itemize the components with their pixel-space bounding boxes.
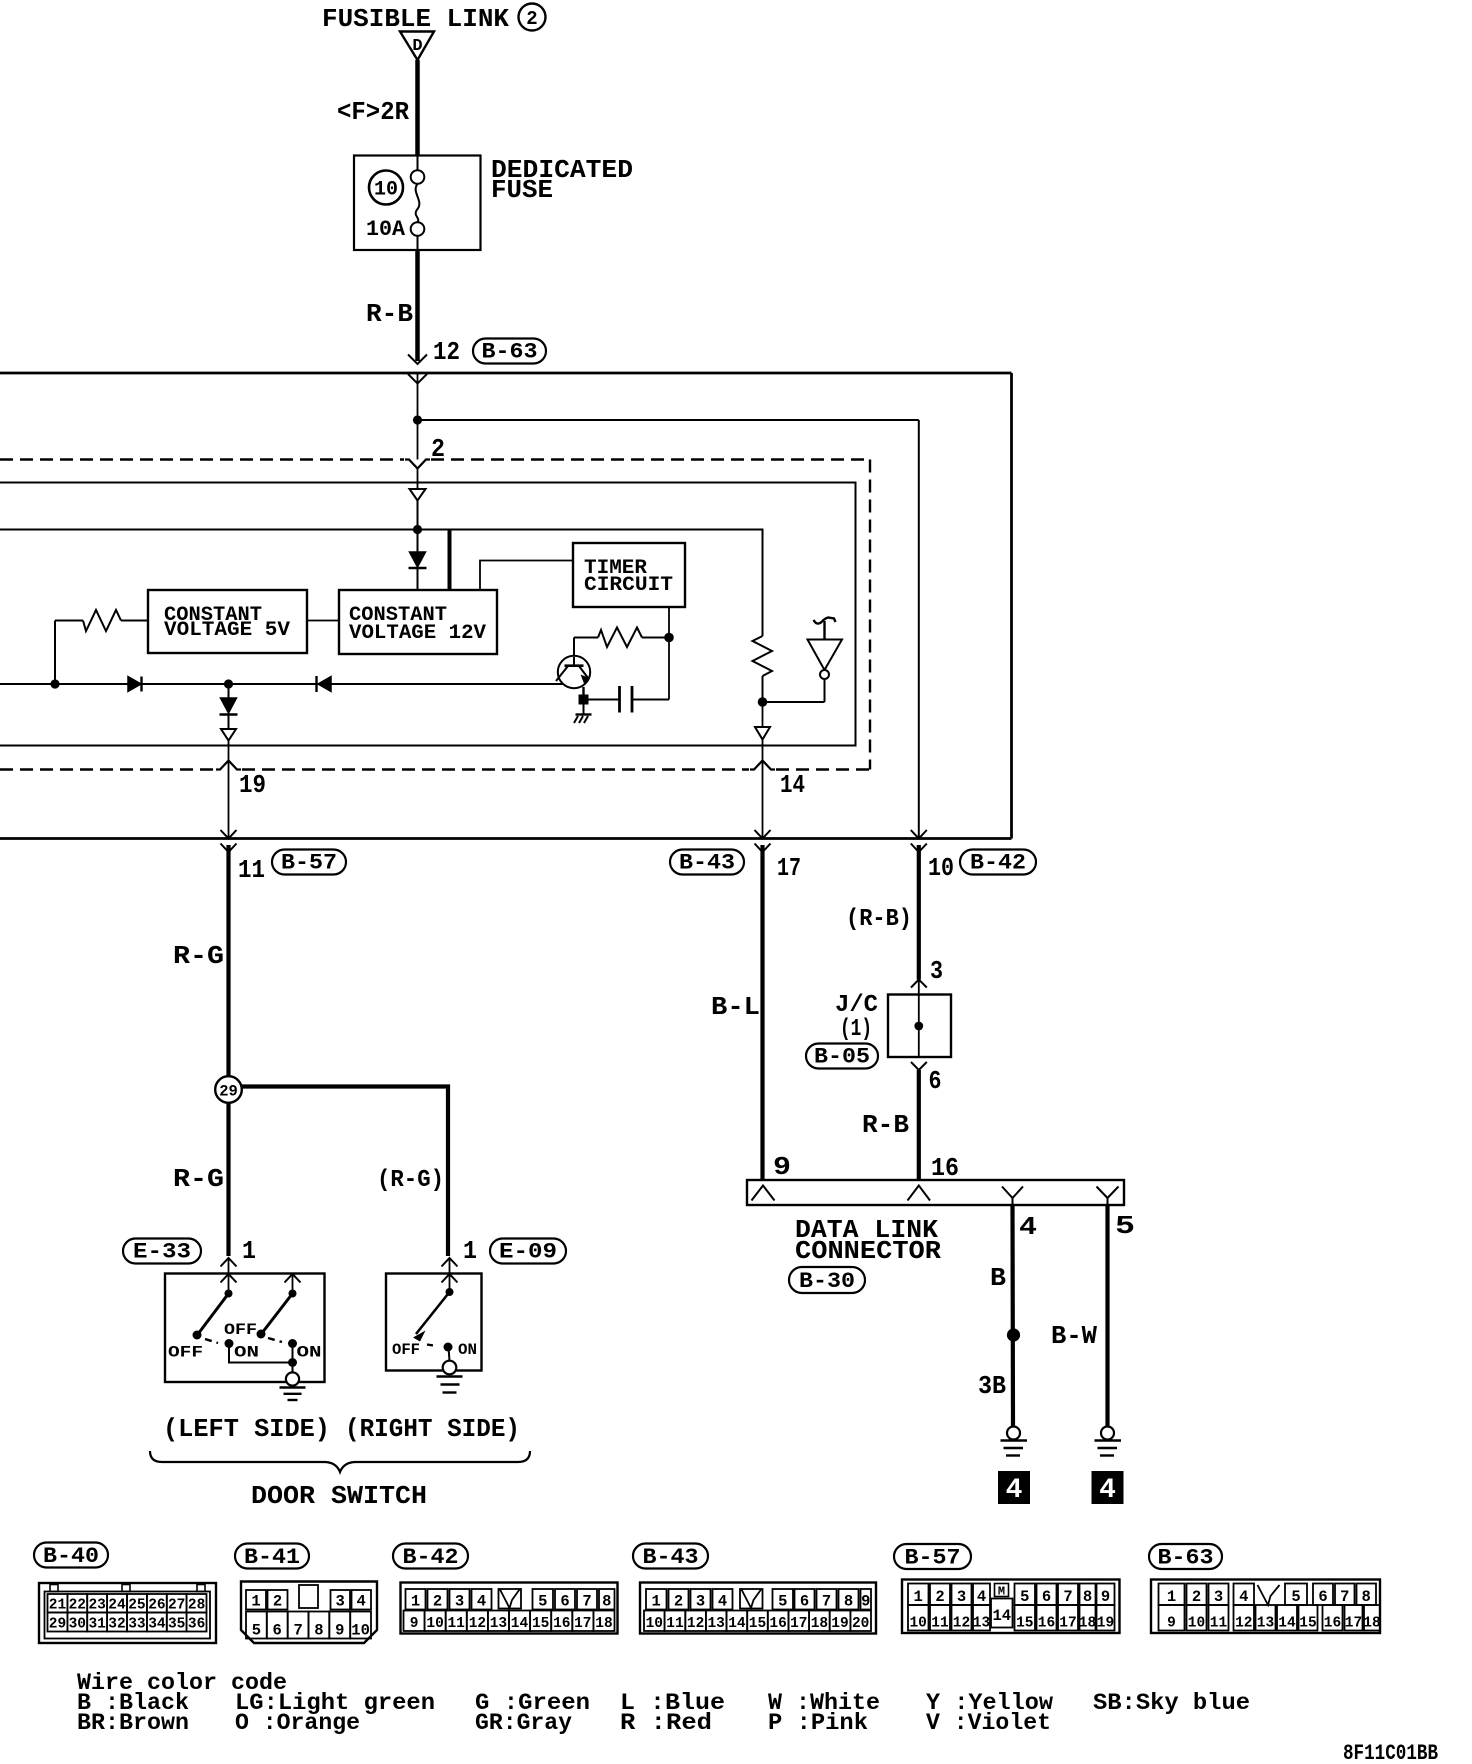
svg-text:(1): (1) [840, 1016, 872, 1043]
label (LEFT SIDE) [163, 1414, 330, 1444]
svg-text:21: 21 [49, 1598, 67, 1614]
svg-text:P :Pink: P :Pink [768, 1710, 868, 1736]
label (RIGHT SIDE) [345, 1414, 520, 1444]
svg-text:16: 16 [1038, 1616, 1055, 1632]
svg-text:8: 8 [314, 1622, 323, 1640]
svg-text:1: 1 [242, 1236, 256, 1266]
label 4 [1019, 1212, 1037, 1242]
pin 2 open triangle [410, 469, 426, 501]
svg-text:ON: ON [297, 1344, 322, 1362]
svg-text:4: 4 [1239, 1588, 1248, 1606]
svg-text:(R-G): (R-G) [377, 1167, 444, 1194]
junction node (wire B) [1007, 1328, 1020, 1341]
svg-text:6: 6 [273, 1622, 282, 1640]
wire diode rail [0, 683, 563, 685]
label J/C [835, 992, 878, 1019]
svg-text:B: B [990, 1263, 1006, 1293]
capacitor C1 [589, 638, 670, 713]
svg-text:OFF: OFF [392, 1341, 420, 1359]
label B-L [711, 992, 760, 1022]
label 11 [238, 855, 265, 885]
wire inside J/C [918, 995, 920, 1058]
svg-text:4: 4 [718, 1593, 727, 1611]
wire internal supply rail [0, 529, 764, 531]
connector E-09 pin 1 chevrons [442, 1258, 458, 1290]
svg-text:3: 3 [455, 1593, 464, 1611]
door switch (right) box [386, 1274, 482, 1371]
svg-text:(R-B): (R-B) [846, 906, 912, 933]
wire branch to right switch (thick) [242, 1087, 449, 1257]
svg-text:8: 8 [844, 1593, 853, 1611]
label 3B [978, 1371, 1006, 1401]
switch SW2 [257, 1290, 298, 1349]
svg-text:27: 27 [168, 1598, 185, 1614]
svg-text:11: 11 [666, 1616, 684, 1632]
svg-text:28: 28 [188, 1598, 205, 1614]
pin 19 open triangle [221, 729, 236, 741]
label DATA LINK CONNECTOR [795, 1215, 941, 1266]
svg-text:14: 14 [992, 1607, 1011, 1625]
document code 8F11C01BB [1343, 1741, 1438, 1764]
block TIMER CIRCUIT [573, 543, 685, 607]
wire B / 3B (thick) [1010, 1205, 1015, 1427]
svg-text:6: 6 [929, 1066, 942, 1096]
svg-text:V :Violet: V :Violet [926, 1710, 1051, 1736]
svg-text:E-09: E-09 [499, 1240, 557, 1265]
svg-text:R-G: R-G [173, 941, 224, 971]
connector label E-33 [123, 1239, 201, 1265]
svg-text:2: 2 [935, 1588, 944, 1606]
svg-text:13: 13 [707, 1616, 724, 1632]
diode D1 (series, pointing down) [409, 552, 427, 590]
svg-text:B-40: B-40 [43, 1544, 99, 1569]
svg-text:12: 12 [1235, 1616, 1252, 1632]
joint 29 circle [215, 1076, 242, 1103]
junction box J/C (1) [888, 995, 951, 1058]
ground (E-33, circle) [280, 1372, 306, 1400]
label 19 [239, 770, 266, 800]
label pin 1 (E-33) [242, 1236, 256, 1266]
svg-text:4: 4 [977, 1588, 986, 1606]
block CONSTANT VOLTAGE 5V [148, 590, 307, 653]
label B [990, 1263, 1006, 1293]
label ON (SW1) [234, 1344, 259, 1362]
DLC pin 4 chevron [1002, 1187, 1023, 1206]
svg-text:3: 3 [930, 956, 943, 986]
label DEDICATED FUSE [491, 155, 633, 205]
circled 2 symbol [519, 4, 546, 31]
svg-text:16: 16 [553, 1616, 570, 1632]
junction node (square) [579, 695, 589, 705]
wire R-B fuse to bus (thick) [415, 250, 420, 361]
connector B-42 pinout [401, 1583, 618, 1634]
label 9 [773, 1152, 791, 1182]
svg-text:VOLTAGE 5V: VOLTAGE 5V [164, 619, 290, 642]
diode D3 (to pin 19, pointing down) [220, 684, 238, 729]
pin 14 exit notch [750, 761, 775, 770]
svg-text:6: 6 [1318, 1588, 1327, 1606]
svg-text:10: 10 [909, 1616, 926, 1632]
svg-text:9: 9 [1167, 1616, 1176, 1632]
resistor R1 (5V input) [55, 610, 148, 684]
svg-text:10: 10 [928, 853, 954, 883]
svg-text:B-42: B-42 [403, 1545, 459, 1570]
svg-text:B-43: B-43 [643, 1545, 699, 1570]
svg-text:E-33: E-33 [133, 1240, 191, 1265]
svg-text:14: 14 [728, 1616, 746, 1632]
svg-text:14: 14 [511, 1616, 529, 1632]
wire timer to 12V block [480, 561, 573, 591]
wire main drop to junction [417, 373, 419, 460]
svg-text:13: 13 [1257, 1616, 1274, 1632]
svg-text:<F>2R: <F>2R [337, 97, 409, 127]
label 12 [433, 337, 460, 367]
label 10A [366, 217, 406, 242]
block CONSTANT VOLTAGE 12V [339, 590, 497, 654]
svg-text:11: 11 [447, 1616, 465, 1632]
svg-text:12: 12 [687, 1616, 704, 1632]
connector label B-63 (strip) [1149, 1544, 1222, 1571]
wire R-G down to joint (thick) [226, 845, 230, 1077]
svg-text:18: 18 [595, 1616, 612, 1632]
connector B-57 pin 11 chevrons [221, 830, 237, 852]
svg-text:R-B: R-B [366, 299, 413, 329]
connector label B-63 [473, 339, 546, 365]
svg-text:24: 24 [108, 1598, 126, 1614]
svg-text:9: 9 [335, 1622, 344, 1640]
svg-text:2: 2 [1192, 1588, 1201, 1606]
wire R-B (thick) [917, 1070, 921, 1180]
svg-text:18: 18 [1363, 1616, 1380, 1632]
wire color code legend [77, 1670, 1250, 1736]
svg-text:14: 14 [1278, 1616, 1296, 1632]
right switch SW3 [413, 1288, 454, 1352]
svg-text:23: 23 [88, 1598, 105, 1614]
junction node [758, 697, 768, 707]
svg-text:FUSE: FUSE [491, 175, 553, 205]
svg-text:7: 7 [293, 1622, 302, 1640]
switch SW2 terminal chevron [285, 1274, 301, 1291]
wire pin 14 drop [762, 740, 764, 839]
svg-text:1: 1 [1167, 1588, 1176, 1606]
svg-text:4: 4 [357, 1593, 366, 1611]
wire switch commons to ground [229, 1347, 293, 1373]
svg-text:6: 6 [800, 1593, 809, 1611]
junction node (J/C) [914, 1022, 923, 1031]
svg-text:14: 14 [780, 770, 805, 800]
svg-text:B-41: B-41 [244, 1545, 300, 1570]
label 17 [777, 853, 801, 883]
wire to ground (E-09) [449, 1347, 450, 1361]
svg-text:M: M [998, 1585, 1005, 1599]
svg-text:9: 9 [773, 1152, 791, 1182]
svg-text:10: 10 [646, 1616, 663, 1632]
diode D4 (pointing left) [317, 676, 332, 692]
svg-text:ON: ON [458, 1341, 477, 1359]
ground (wire B) [1001, 1427, 1028, 1456]
label R-B (lower) [862, 1110, 909, 1140]
connector label E-09 [490, 1239, 566, 1265]
svg-text:7: 7 [1340, 1588, 1349, 1606]
svg-text:6: 6 [560, 1593, 569, 1611]
svg-text:10A: 10A [366, 217, 406, 242]
svg-text:5: 5 [1115, 1211, 1135, 1241]
inner circuit solid box [0, 483, 856, 746]
svg-text:3B: 3B [978, 1371, 1006, 1401]
svg-text:18: 18 [1079, 1616, 1096, 1632]
fuse box [354, 156, 481, 251]
junction node [413, 525, 422, 534]
svg-text:B-42: B-42 [970, 851, 1026, 876]
label <F>2R [337, 97, 409, 127]
brace door switch [150, 1451, 530, 1472]
wire thick feed to 12V regulator [448, 530, 452, 591]
svg-text:2: 2 [273, 1593, 282, 1611]
svg-text:ON: ON [234, 1344, 259, 1362]
label OFF (SW2) [224, 1321, 257, 1339]
connector label B-57 [272, 850, 346, 876]
svg-text:O :Orange: O :Orange [235, 1710, 360, 1736]
label FUSIBLE LINK [322, 4, 509, 34]
junction node [50, 679, 59, 688]
svg-text:B-30: B-30 [799, 1269, 855, 1294]
svg-text:34: 34 [148, 1617, 166, 1633]
wire bus top [0, 372, 1012, 375]
wire into J/C [918, 980, 920, 1058]
connector label B-43 (strip) [633, 1544, 708, 1571]
svg-text:13: 13 [973, 1616, 990, 1632]
connector label B-57 (strip) [894, 1544, 971, 1571]
diode D2 (pointing right) [128, 677, 142, 692]
wire transistor emitter [582, 687, 584, 696]
junction node [413, 415, 422, 424]
junction node [224, 679, 233, 688]
label pin 1 (E-09) [463, 1236, 477, 1266]
svg-text:8F11C01BB: 8F11C01BB [1343, 1741, 1438, 1764]
svg-text:FUSIBLE LINK: FUSIBLE LINK [322, 4, 509, 34]
wire pin 19 drop [228, 741, 230, 839]
svg-text:4: 4 [477, 1593, 486, 1611]
svg-text:15: 15 [749, 1616, 766, 1632]
junction node [664, 633, 674, 643]
label 6 [929, 1066, 942, 1096]
svg-text:32: 32 [108, 1617, 125, 1633]
svg-text:CONNECTOR: CONNECTOR [795, 1236, 941, 1266]
fusible link triangle D [400, 32, 434, 61]
ETACS dashed border top with pin 2 notch [0, 458, 870, 460]
svg-text:36: 36 [188, 1617, 205, 1633]
svg-text:B-W: B-W [1051, 1321, 1097, 1351]
svg-text:19: 19 [239, 770, 266, 800]
svg-text:OFF: OFF [168, 1344, 203, 1362]
svg-text:25: 25 [128, 1598, 145, 1614]
label OFF (SW1) [168, 1344, 203, 1362]
svg-text:12: 12 [433, 337, 460, 367]
wire bus bottom [0, 837, 1012, 840]
svg-text:33: 33 [128, 1617, 145, 1633]
resistor R3 (timer-transistor base) [574, 628, 669, 657]
label 16 [931, 1153, 959, 1183]
svg-text:17: 17 [790, 1616, 807, 1632]
transistor Q1 [556, 656, 590, 688]
svg-text:30: 30 [69, 1617, 86, 1633]
wire right branch down [918, 420, 920, 839]
label 3 [930, 956, 943, 986]
label R-G [173, 941, 224, 971]
connector B-63 pinout [1151, 1580, 1381, 1634]
svg-text:10: 10 [426, 1616, 443, 1632]
svg-text:VOLTAGE 12V: VOLTAGE 12V [349, 622, 486, 645]
resistor R2 (pin 14 pull) [753, 530, 773, 701]
svg-text:1: 1 [463, 1236, 477, 1266]
svg-text:6: 6 [1042, 1588, 1051, 1606]
connector E-33 pin 1 chevrons [221, 1258, 237, 1291]
connector label B-43 [670, 850, 744, 876]
svg-text:5: 5 [538, 1593, 547, 1611]
svg-text:16: 16 [931, 1153, 959, 1183]
label (R-G) [377, 1167, 444, 1194]
svg-text:3: 3 [336, 1593, 345, 1611]
svg-text:19: 19 [1097, 1616, 1114, 1632]
label OFF (SW3) [392, 1341, 420, 1359]
svg-text:3: 3 [696, 1593, 705, 1611]
svg-text:12: 12 [953, 1616, 970, 1632]
svg-text:7: 7 [582, 1593, 591, 1611]
svg-text:12: 12 [469, 1616, 486, 1632]
svg-text:B-L: B-L [711, 992, 760, 1022]
svg-text:5: 5 [252, 1622, 261, 1640]
svg-text:1: 1 [914, 1588, 923, 1606]
connector label B-42 (strip) [393, 1544, 468, 1571]
svg-text:1: 1 [652, 1593, 661, 1611]
svg-text:3: 3 [957, 1588, 966, 1606]
svg-text:1: 1 [411, 1593, 420, 1611]
label ON (SW3) [458, 1341, 477, 1359]
svg-text:GR:Gray: GR:Gray [475, 1710, 572, 1736]
connector B-40 pinout [39, 1583, 216, 1643]
label DOOR SWITCH [251, 1481, 427, 1511]
label (1) [840, 1016, 872, 1043]
svg-text:B-63: B-63 [1158, 1546, 1214, 1571]
wire B-W (thick) [1105, 1205, 1109, 1427]
svg-text:4: 4 [1006, 1475, 1023, 1506]
svg-text:D: D [412, 37, 422, 56]
wire bus right edge [1010, 373, 1013, 839]
connector B-43 pin 17 chevrons [755, 830, 771, 852]
svg-text:9: 9 [861, 1593, 870, 1611]
wire fusible link to fuse (thick) [415, 60, 420, 156]
svg-text:OFF: OFF [224, 1321, 257, 1339]
svg-text:B-63: B-63 [482, 340, 538, 365]
svg-text:15: 15 [1016, 1616, 1033, 1632]
svg-text:7: 7 [1063, 1588, 1072, 1606]
svg-text:J/C: J/C [835, 992, 878, 1019]
svg-text:2: 2 [674, 1593, 683, 1611]
ground (wire B-W) [1095, 1427, 1122, 1456]
svg-text:BR:Brown: BR:Brown [77, 1710, 189, 1736]
svg-text:16: 16 [1324, 1616, 1341, 1632]
svg-text:22: 22 [69, 1598, 86, 1614]
DLC pin 16 chevron [908, 1186, 931, 1201]
connector label B-05 [806, 1044, 878, 1070]
wire between regulators [307, 620, 339, 622]
DLC pin 5 chevron [1097, 1187, 1119, 1206]
pin 19 exit notch [216, 761, 241, 770]
svg-text:B-57: B-57 [905, 1546, 961, 1571]
ground (E-09, circle) [437, 1361, 463, 1393]
J/C pin 3 chevron [911, 980, 927, 988]
wire B-L (thick) [760, 845, 764, 1180]
label 10 [928, 853, 954, 883]
junction node [288, 1358, 297, 1367]
svg-text:R-G: R-G [173, 1164, 224, 1194]
svg-text:R-B: R-B [862, 1110, 909, 1140]
svg-text:20: 20 [852, 1616, 869, 1632]
svg-text:35: 35 [168, 1617, 185, 1633]
svg-text:9: 9 [410, 1616, 419, 1632]
svg-text:R :Red: R :Red [620, 1710, 712, 1736]
svg-text:DOOR SWITCH: DOOR SWITCH [251, 1481, 427, 1511]
svg-text:11: 11 [238, 855, 265, 885]
svg-text:10: 10 [351, 1622, 370, 1640]
svg-text:18: 18 [811, 1616, 828, 1632]
pin 14 open triangle [755, 706, 770, 740]
wire left drop to E-33 (thick) [226, 1103, 230, 1257]
svg-text:4: 4 [1019, 1212, 1037, 1242]
svg-text:2: 2 [431, 434, 445, 464]
J/C pin 6 chevron [911, 1062, 927, 1070]
svg-text:17: 17 [1345, 1616, 1362, 1632]
svg-text:29: 29 [219, 1083, 238, 1101]
circled 10 (fuse number) [369, 171, 403, 205]
wire pin2 to junction [417, 501, 419, 553]
ground (transistor emitter, hatched) [574, 704, 592, 723]
label R-G (lower) [173, 1164, 224, 1194]
svg-text:4: 4 [1099, 1475, 1116, 1506]
svg-text:17: 17 [1059, 1616, 1076, 1632]
ground ref 4 (black square, right) [1092, 1471, 1124, 1506]
label 5 [1115, 1211, 1135, 1241]
fuse element F10 10A [411, 156, 425, 251]
svg-text:2: 2 [526, 8, 537, 30]
label 14 [780, 770, 805, 800]
door switch (left) box [165, 1274, 325, 1383]
svg-text:5: 5 [1291, 1588, 1300, 1606]
svg-text:8: 8 [1083, 1588, 1092, 1606]
svg-text:5: 5 [1020, 1588, 1029, 1606]
connector B-41 pinout [241, 1582, 377, 1644]
svg-text:8: 8 [602, 1593, 611, 1611]
svg-text:15: 15 [532, 1616, 549, 1632]
label B-W [1051, 1321, 1097, 1351]
label pin 2 [431, 434, 445, 464]
pin 2 entry notch [405, 460, 430, 469]
left switch SW1 [193, 1290, 234, 1349]
connector B-42 pin 10 chevrons [911, 830, 927, 852]
connector label B-40 (strip) [34, 1543, 108, 1570]
svg-text:1: 1 [251, 1593, 260, 1611]
connector label B-42 [960, 850, 1036, 876]
svg-text:B-05: B-05 [814, 1045, 870, 1070]
svg-text:CIRCUIT: CIRCUIT [584, 574, 673, 597]
svg-text:B-57: B-57 [281, 851, 337, 876]
svg-text:7: 7 [822, 1593, 831, 1611]
DLC pin 9 chevron [752, 1186, 775, 1201]
svg-text:29: 29 [49, 1617, 66, 1633]
wire branch to right [418, 419, 919, 421]
label R-B [366, 299, 413, 329]
connector B-57 pinout [902, 1580, 1120, 1634]
